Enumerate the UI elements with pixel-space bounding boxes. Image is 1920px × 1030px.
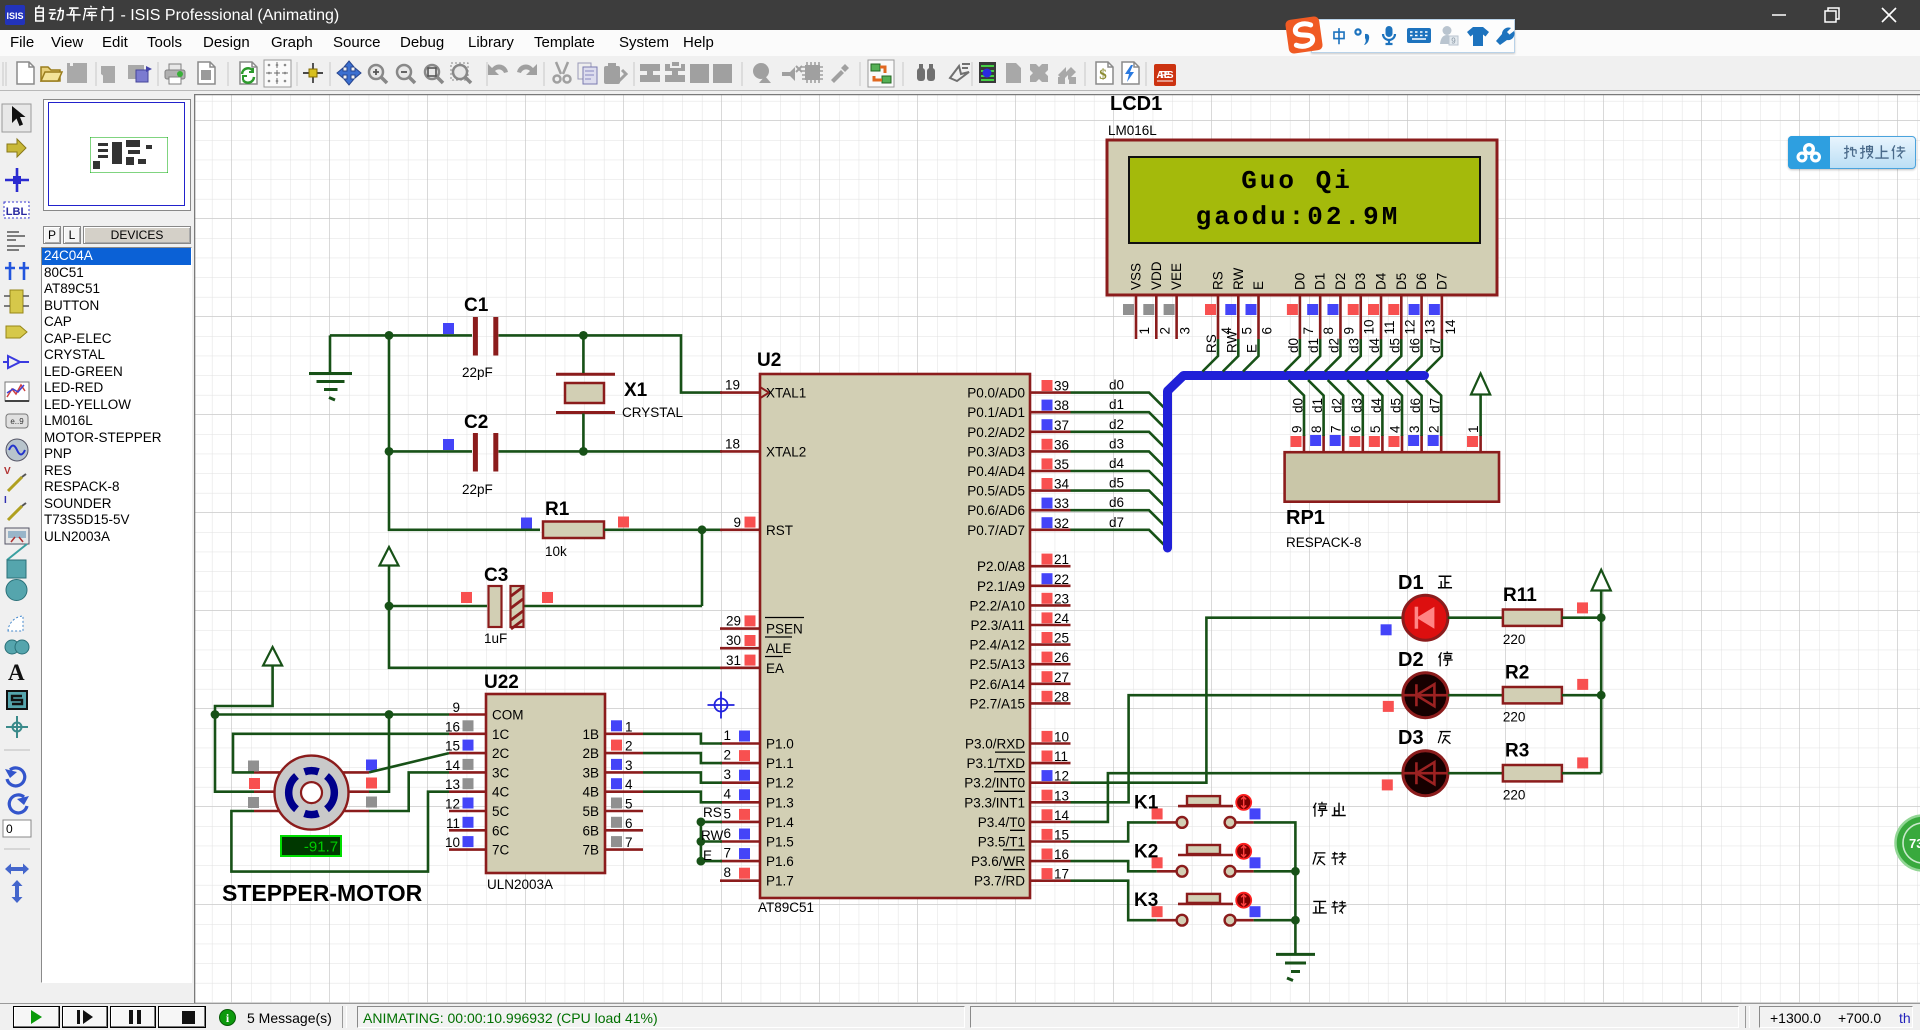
svg-text:5: 5 bbox=[625, 797, 633, 812]
svg-text:COM: COM bbox=[492, 708, 524, 723]
ground (buttons) bbox=[1276, 954, 1315, 980]
net d0-d7 (P0 to bus) bbox=[1071, 378, 1165, 546]
wire motor right-bottom to 3C bbox=[369, 772, 449, 811]
svg-text:P0.7/AD7: P0.7/AD7 bbox=[967, 523, 1025, 538]
svg-text:E: E bbox=[1251, 281, 1266, 290]
svg-text:0: 0 bbox=[6, 822, 13, 836]
svg-text:P2.4/A12: P2.4/A12 bbox=[969, 638, 1025, 653]
svg-text:P0.3/AD3: P0.3/AD3 bbox=[967, 444, 1025, 459]
svg-text:1: 1 bbox=[723, 728, 731, 743]
svg-text:R3: R3 bbox=[1505, 741, 1529, 762]
svg-text:RESPACK-8: RESPACK-8 bbox=[1286, 535, 1362, 550]
wire K3 to P3.7 bbox=[1071, 881, 1157, 921]
svg-text:8: 8 bbox=[723, 865, 731, 880]
window title bar bbox=[0, 0, 1920, 30]
svg-text:d4: d4 bbox=[1109, 456, 1125, 471]
svg-text:8: 8 bbox=[1309, 425, 1324, 433]
resistor R2 bbox=[1503, 663, 1588, 725]
svg-text:d6: d6 bbox=[1109, 495, 1124, 510]
svg-text:D0: D0 bbox=[1292, 273, 1307, 290]
svg-text:15: 15 bbox=[445, 739, 460, 754]
svg-text:LM016L: LM016L bbox=[1108, 123, 1157, 138]
svg-text:STEPPER-MOTOR: STEPPER-MOTOR bbox=[222, 880, 423, 906]
svg-text:P0.1/AD1: P0.1/AD1 bbox=[967, 405, 1025, 420]
svg-text:34: 34 bbox=[1054, 477, 1070, 492]
info + messages bbox=[219, 1009, 236, 1026]
svg-text:P2.3/A11: P2.3/A11 bbox=[970, 618, 1025, 633]
svg-text:9: 9 bbox=[452, 700, 460, 715]
svg-text:d3: d3 bbox=[1347, 338, 1362, 353]
wire R1 to RST bbox=[604, 528, 722, 531]
svg-text:C1: C1 bbox=[464, 295, 489, 316]
svg-text:P3.5/T1: P3.5/T1 bbox=[978, 835, 1025, 850]
svg-text:27: 27 bbox=[1054, 670, 1069, 685]
wire P3.4 to D3 bbox=[1071, 773, 1405, 822]
svg-text:2C: 2C bbox=[492, 746, 510, 761]
svg-text:P0.2/AD2: P0.2/AD2 bbox=[967, 425, 1025, 440]
svg-text:2: 2 bbox=[1427, 425, 1442, 433]
svg-text:1uF: 1uF bbox=[484, 631, 507, 646]
svg-text:12: 12 bbox=[445, 797, 460, 812]
wire motor right-top to 2C (diagonal) bbox=[369, 753, 449, 772]
svg-text:d5: d5 bbox=[1109, 476, 1124, 491]
status bar bbox=[0, 1003, 1920, 1030]
svg-text:11: 11 bbox=[1382, 320, 1397, 334]
svg-text:P3.4/T0: P3.4/T0 bbox=[978, 815, 1025, 830]
buttons K1 K2 K3 bbox=[1134, 792, 1346, 925]
svg-text:3C: 3C bbox=[492, 765, 510, 780]
svg-text:P3.0/RXD: P3.0/RXD bbox=[965, 737, 1025, 752]
svg-text:13: 13 bbox=[1423, 319, 1438, 334]
svg-text:C3: C3 bbox=[484, 565, 508, 586]
wire R3 to +5V rail bbox=[1562, 772, 1601, 775]
svg-text:V: V bbox=[4, 466, 11, 477]
node junction rail-C2 bbox=[385, 447, 394, 456]
svg-text:220: 220 bbox=[1503, 788, 1526, 803]
svg-text:22: 22 bbox=[1054, 572, 1069, 587]
svg-text:1B: 1B bbox=[582, 727, 599, 742]
svg-text:16: 16 bbox=[1054, 847, 1069, 862]
wire K right rail to ground bbox=[1254, 822, 1296, 954]
ground bbox=[309, 335, 352, 400]
svg-text:7: 7 bbox=[625, 835, 633, 850]
svg-text:D1: D1 bbox=[1398, 572, 1424, 594]
bus (data bus to LCD and RESPACK) bbox=[1168, 376, 1425, 549]
svg-text:d1: d1 bbox=[1306, 338, 1321, 353]
svg-text:P1.5: P1.5 bbox=[766, 835, 794, 850]
wire left rail bbox=[389, 335, 540, 529]
motor STEPPER-MOTOR bbox=[222, 756, 423, 906]
svg-text:P1.0: P1.0 bbox=[766, 737, 794, 752]
svg-text:7: 7 bbox=[723, 846, 731, 861]
svg-text:U22: U22 bbox=[484, 672, 519, 693]
svg-text:24: 24 bbox=[1054, 611, 1070, 626]
ARES icon bbox=[1154, 64, 1176, 86]
wire P3.2 to D1 bbox=[1071, 618, 1405, 783]
svg-text:PSEN: PSEN bbox=[766, 622, 803, 637]
svg-text:32: 32 bbox=[1054, 516, 1069, 531]
wire X1 top bbox=[582, 335, 585, 373]
svg-text:AT89C51: AT89C51 bbox=[758, 900, 814, 915]
svg-text:38: 38 bbox=[1054, 398, 1069, 413]
svg-text:P2.2/A10: P2.2/A10 bbox=[969, 598, 1025, 613]
svg-text:8: 8 bbox=[1321, 327, 1336, 335]
svg-text:25: 25 bbox=[1054, 631, 1069, 646]
net labels RS RW E (P1.4-P1.6) bbox=[697, 805, 724, 865]
svg-text:d1: d1 bbox=[1310, 398, 1325, 413]
svg-text:C2: C2 bbox=[464, 412, 488, 433]
svg-text:11: 11 bbox=[1054, 749, 1068, 764]
ISIS app icon bbox=[5, 5, 25, 25]
label D3 fan bbox=[1438, 732, 1450, 744]
svg-text:RW: RW bbox=[701, 828, 724, 843]
svg-text:I: I bbox=[4, 495, 7, 506]
svg-text:5B: 5B bbox=[582, 804, 599, 819]
resistor pack RP1 RESPACK-8 bbox=[1285, 425, 1499, 550]
power +5V arrow (LED rail) bbox=[1592, 570, 1611, 774]
svg-text:XTAL2: XTAL2 bbox=[766, 444, 806, 459]
svg-text:73: 73 bbox=[1909, 836, 1920, 851]
svg-text:1: 1 bbox=[625, 719, 633, 734]
wire K1 to P3.5 bbox=[1071, 822, 1157, 841]
svg-text:RST: RST bbox=[766, 523, 793, 538]
device list bbox=[41, 247, 192, 983]
svg-text:P3.7/RD: P3.7/RD bbox=[974, 874, 1025, 889]
svg-text:23: 23 bbox=[1054, 591, 1069, 606]
svg-text:26: 26 bbox=[1054, 650, 1069, 665]
svg-text:7C: 7C bbox=[492, 843, 510, 858]
node junction C3-power bbox=[385, 602, 394, 611]
origin marker bbox=[708, 692, 735, 719]
svg-text:U2: U2 bbox=[757, 350, 781, 371]
svg-text:29: 29 bbox=[726, 614, 741, 629]
svg-text:14: 14 bbox=[445, 758, 461, 773]
svg-text:P0.4/AD4: P0.4/AD4 bbox=[967, 464, 1025, 479]
play controls bbox=[13, 1006, 60, 1028]
svg-text:9: 9 bbox=[733, 515, 741, 530]
svg-text:d2: d2 bbox=[1330, 398, 1345, 413]
svg-text:P0.0/AD0: P0.0/AD0 bbox=[967, 386, 1025, 401]
wire COM net bbox=[215, 713, 449, 716]
svg-text:XTAL1: XTAL1 bbox=[766, 386, 806, 401]
svg-text:EA: EA bbox=[766, 661, 784, 676]
svg-text:RS: RS bbox=[703, 805, 722, 820]
svg-text:LBL: LBL bbox=[6, 206, 28, 218]
capacitor C1 bbox=[443, 295, 496, 380]
svg-text:P3.6/WR: P3.6/WR bbox=[971, 854, 1025, 869]
power +5V arrow (RP1) bbox=[1471, 374, 1490, 437]
svg-text:d7: d7 bbox=[1428, 338, 1443, 353]
svg-text:D3: D3 bbox=[1398, 727, 1424, 749]
svg-text:3: 3 bbox=[1407, 425, 1422, 433]
wire EA net bbox=[389, 606, 722, 668]
svg-text:18: 18 bbox=[725, 436, 740, 451]
svg-text:7: 7 bbox=[1301, 327, 1316, 335]
capacitor C3 (electrolytic) bbox=[461, 565, 553, 646]
svg-text:P0.6/AD6: P0.6/AD6 bbox=[967, 503, 1025, 518]
svg-text:4B: 4B bbox=[582, 785, 599, 800]
wire K2 to P3.6 bbox=[1071, 861, 1157, 871]
resistor R11 bbox=[1503, 585, 1588, 647]
svg-text:33: 33 bbox=[1054, 496, 1069, 511]
svg-text:D1: D1 bbox=[1313, 273, 1328, 290]
svg-text:P1.1: P1.1 bbox=[766, 756, 794, 771]
svg-text:6C: 6C bbox=[492, 823, 510, 838]
screen overlay bubble bbox=[1896, 816, 1920, 871]
svg-text:P1.6: P1.6 bbox=[766, 854, 794, 869]
svg-text:21: 21 bbox=[1054, 552, 1069, 567]
crystal X1 bbox=[556, 374, 684, 420]
animating panel bbox=[357, 1006, 965, 1028]
svg-text:19: 19 bbox=[725, 378, 740, 393]
wire motor left-mid to COM bbox=[215, 715, 254, 792]
svg-text:D5: D5 bbox=[1394, 273, 1409, 290]
svg-text:12: 12 bbox=[1402, 319, 1417, 334]
svg-text:3: 3 bbox=[723, 767, 731, 782]
wire C1 left bbox=[330, 334, 472, 337]
svg-text:d3: d3 bbox=[1109, 436, 1124, 451]
wire motor left-top to 1C bbox=[233, 734, 449, 773]
svg-text:P2.1/A9: P2.1/A9 bbox=[977, 579, 1025, 594]
window buttons bbox=[1760, 0, 1920, 30]
svg-text:3B: 3B bbox=[582, 765, 599, 780]
svg-text:2: 2 bbox=[625, 739, 633, 754]
svg-text:30: 30 bbox=[726, 633, 741, 648]
svg-text:VEE: VEE bbox=[1169, 263, 1184, 290]
svg-text:31: 31 bbox=[726, 653, 741, 668]
svg-text:D2: D2 bbox=[1333, 273, 1348, 290]
svg-text:d6: d6 bbox=[1408, 338, 1423, 353]
svg-text:9: 9 bbox=[1341, 327, 1356, 335]
svg-text:R2: R2 bbox=[1505, 663, 1529, 684]
svg-text:39: 39 bbox=[1054, 379, 1069, 394]
svg-text:9: 9 bbox=[1290, 425, 1305, 433]
svg-text:P3.1/TXD: P3.1/TXD bbox=[966, 756, 1025, 771]
svg-text:4: 4 bbox=[1388, 425, 1403, 433]
svg-text:220: 220 bbox=[1503, 710, 1526, 725]
svg-text:P0.5/AD5: P0.5/AD5 bbox=[967, 484, 1025, 499]
resistor R1 bbox=[521, 499, 629, 559]
svg-text:14: 14 bbox=[1054, 808, 1070, 823]
wire RST rail down bbox=[701, 530, 704, 606]
svg-text:3: 3 bbox=[1178, 327, 1193, 335]
svg-text:R1: R1 bbox=[545, 499, 570, 520]
power +5V arrow (motor COM) bbox=[215, 647, 282, 715]
wire C1 right to XTAL1 bbox=[499, 335, 723, 392]
svg-text:CRYSTAL: CRYSTAL bbox=[622, 405, 684, 420]
svg-text:P3.3/INT1: P3.3/INT1 bbox=[964, 795, 1025, 810]
svg-text:E: E bbox=[1245, 344, 1260, 353]
svg-text:D4: D4 bbox=[1374, 272, 1389, 290]
svg-text:d5: d5 bbox=[1389, 398, 1404, 413]
wires bus to RP1 pins bbox=[1289, 380, 1443, 436]
svg-text:1C: 1C bbox=[492, 727, 510, 742]
svg-text:10: 10 bbox=[445, 835, 460, 850]
svg-text:d6: d6 bbox=[1408, 398, 1423, 413]
wire motor right-mid to COM bbox=[369, 715, 389, 792]
svg-text:5: 5 bbox=[723, 806, 731, 821]
svg-text:RP1: RP1 bbox=[1286, 507, 1325, 529]
svg-text:17: 17 bbox=[1054, 867, 1069, 882]
svg-text:13: 13 bbox=[1054, 788, 1069, 803]
svg-text:6: 6 bbox=[723, 826, 731, 841]
resistor R3 bbox=[1503, 741, 1588, 803]
svg-text:X1: X1 bbox=[624, 380, 648, 401]
svg-text:16: 16 bbox=[445, 719, 460, 734]
svg-text:36: 36 bbox=[1054, 437, 1069, 452]
svg-text:RS: RS bbox=[1204, 334, 1219, 353]
svg-text:2: 2 bbox=[723, 748, 731, 763]
svg-text:6: 6 bbox=[1348, 425, 1363, 433]
label D2 ting bbox=[1439, 651, 1453, 666]
svg-text:d0: d0 bbox=[1286, 338, 1301, 353]
node junction C1-rail bbox=[385, 331, 394, 340]
svg-text:P3.2/INT0: P3.2/INT0 bbox=[964, 776, 1025, 791]
LED D1 (lit) bbox=[1381, 572, 1448, 640]
svg-text:D3: D3 bbox=[1353, 273, 1368, 290]
svg-text:d7: d7 bbox=[1428, 398, 1443, 413]
svg-text:d4: d4 bbox=[1369, 397, 1384, 413]
svg-text:13: 13 bbox=[445, 777, 460, 792]
svg-text:7B: 7B bbox=[582, 843, 599, 858]
wires LCD pins to bus (RS RW E d0-d7) bbox=[1203, 330, 1443, 371]
svg-text:12: 12 bbox=[1054, 769, 1069, 784]
svg-text:D6: D6 bbox=[1414, 273, 1429, 290]
P / L / DEVICES header bbox=[43, 226, 61, 244]
wires U22 1B-4B to U2 P1.0-P1.3 bbox=[643, 734, 722, 803]
svg-text:d0: d0 bbox=[1109, 378, 1124, 393]
LED D2 (off) bbox=[1383, 649, 1448, 718]
svg-text:11: 11 bbox=[446, 816, 460, 831]
wire C3 right bbox=[525, 605, 703, 608]
svg-text:VDD: VDD bbox=[1149, 261, 1164, 290]
svg-text:d0: d0 bbox=[1291, 398, 1306, 413]
svg-text:6: 6 bbox=[625, 816, 633, 831]
node junction RST bbox=[698, 525, 707, 534]
svg-text:d2: d2 bbox=[1109, 417, 1124, 432]
svg-text:10k: 10k bbox=[545, 544, 567, 559]
svg-text:10: 10 bbox=[1362, 319, 1377, 334]
svg-text:6B: 6B bbox=[582, 823, 599, 838]
wire motor left-bottom to 4C bbox=[231, 792, 449, 872]
svg-text:d1: d1 bbox=[1109, 397, 1124, 412]
left panel bbox=[34, 91, 195, 1003]
capacitor C2 bbox=[443, 412, 496, 497]
svg-text:14: 14 bbox=[1443, 319, 1458, 335]
svg-text:220: 220 bbox=[1503, 632, 1526, 647]
LED D3 (off) bbox=[1382, 727, 1448, 796]
svg-text:10: 10 bbox=[1054, 730, 1069, 745]
svg-text:1: 1 bbox=[1466, 425, 1481, 433]
left tool column bbox=[0, 91, 34, 1003]
power +5V arrow (C3) bbox=[380, 547, 399, 606]
svg-text:2B: 2B bbox=[582, 746, 599, 761]
wire D2 to R2 bbox=[1448, 694, 1503, 697]
svg-text:E: E bbox=[703, 848, 712, 863]
svg-text:ALE: ALE bbox=[766, 641, 792, 656]
svg-text:7: 7 bbox=[1329, 425, 1344, 433]
menu bar bbox=[0, 30, 1920, 56]
svg-text:15: 15 bbox=[1054, 828, 1069, 843]
svg-text:$: $ bbox=[1099, 67, 1107, 83]
sogou input bar bbox=[1311, 19, 1515, 53]
svg-text:6: 6 bbox=[1260, 327, 1275, 335]
svg-text:d4: d4 bbox=[1367, 337, 1382, 353]
preview window bbox=[43, 99, 191, 211]
svg-text:Guo Qi: Guo Qi bbox=[1241, 166, 1353, 196]
svg-text:22pF: 22pF bbox=[462, 482, 493, 497]
svg-text:d2: d2 bbox=[1326, 338, 1341, 353]
svg-text:5: 5 bbox=[1368, 425, 1383, 433]
wire C3 left bbox=[389, 605, 487, 608]
svg-text:d5: d5 bbox=[1387, 338, 1402, 353]
wire D3 to R3 bbox=[1448, 772, 1503, 775]
svg-text:d3: d3 bbox=[1349, 398, 1364, 413]
svg-text:2: 2 bbox=[1157, 327, 1172, 335]
wire C2 right to XTAL2 bbox=[499, 450, 723, 453]
wire D1 to R11 bbox=[1448, 616, 1503, 619]
svg-text:9: 9 bbox=[1451, 37, 1456, 46]
svg-text:gaodu:02.9M: gaodu:02.9M bbox=[1196, 202, 1401, 232]
toolbar bbox=[0, 56, 1920, 91]
svg-text:VSS: VSS bbox=[1129, 263, 1144, 290]
svg-text:ISIS: ISIS bbox=[6, 11, 23, 21]
svg-text:-91.7: -91.7 bbox=[304, 839, 338, 856]
svg-text:1: 1 bbox=[1137, 327, 1152, 335]
svg-text:d7: d7 bbox=[1109, 515, 1124, 530]
svg-text:e..9: e..9 bbox=[10, 417, 24, 426]
svg-text:37: 37 bbox=[1054, 418, 1069, 433]
wire X1 bottom bbox=[582, 414, 585, 452]
IC U2 AT89C51 bbox=[720, 350, 1071, 915]
svg-text:LCD1: LCD1 bbox=[1110, 94, 1162, 115]
svg-text:R11: R11 bbox=[1503, 585, 1537, 606]
schematic canvas bbox=[194, 94, 1920, 1003]
svg-text:P1.7: P1.7 bbox=[766, 874, 794, 889]
node junction C2-X1 bbox=[579, 447, 588, 456]
svg-text:P2.6/A14: P2.6/A14 bbox=[969, 677, 1025, 692]
svg-text:A: A bbox=[8, 660, 25, 685]
svg-text:RW: RW bbox=[1224, 330, 1239, 353]
svg-text:22pF: 22pF bbox=[462, 365, 493, 380]
svg-text:RS: RS bbox=[1211, 271, 1226, 290]
svg-text:RW: RW bbox=[1231, 267, 1246, 290]
svg-text:3: 3 bbox=[625, 758, 633, 773]
svg-text:D2: D2 bbox=[1398, 649, 1424, 671]
label D1 zheng bbox=[1438, 576, 1452, 588]
svg-text:5C: 5C bbox=[492, 804, 510, 819]
svg-text:35: 35 bbox=[1054, 457, 1069, 472]
svg-text:ULN2003A: ULN2003A bbox=[487, 877, 553, 892]
svg-text:D7: D7 bbox=[1434, 273, 1449, 290]
svg-text:28: 28 bbox=[1054, 689, 1069, 704]
svg-text:P2.5/A13: P2.5/A13 bbox=[969, 657, 1025, 672]
wire C2 left bbox=[389, 450, 472, 453]
svg-text:4: 4 bbox=[625, 777, 633, 792]
svg-text:P1.4: P1.4 bbox=[766, 815, 794, 830]
node junction C1-X1 bbox=[579, 331, 588, 340]
drag-upload widget bbox=[1788, 136, 1916, 169]
svg-text:5: 5 bbox=[1239, 327, 1254, 335]
wire R2 to +5V rail bbox=[1562, 694, 1601, 697]
wire R11 to +5V rail bbox=[1562, 616, 1601, 619]
svg-text:P1.3: P1.3 bbox=[766, 795, 794, 810]
svg-text:P2.7/A15: P2.7/A15 bbox=[969, 696, 1025, 711]
svg-text:P2.0/A8: P2.0/A8 bbox=[977, 559, 1025, 574]
svg-text:4: 4 bbox=[723, 787, 731, 802]
IC U22 ULN2003A bbox=[445, 672, 643, 892]
wire P3.3 to D2 bbox=[1071, 695, 1405, 802]
